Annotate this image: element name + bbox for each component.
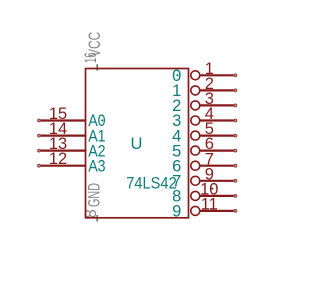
svg-text:16: 16 — [82, 53, 100, 64]
svg-text:11: 11 — [201, 196, 218, 214]
svg-text:9: 9 — [172, 203, 181, 221]
svg-text:U: U — [131, 135, 143, 153]
svg-text:12: 12 — [49, 150, 67, 168]
svg-text:A3: A3 — [88, 157, 105, 175]
svg-text:GND: GND — [86, 183, 104, 207]
svg-text:74LS42: 74LS42 — [126, 175, 176, 193]
